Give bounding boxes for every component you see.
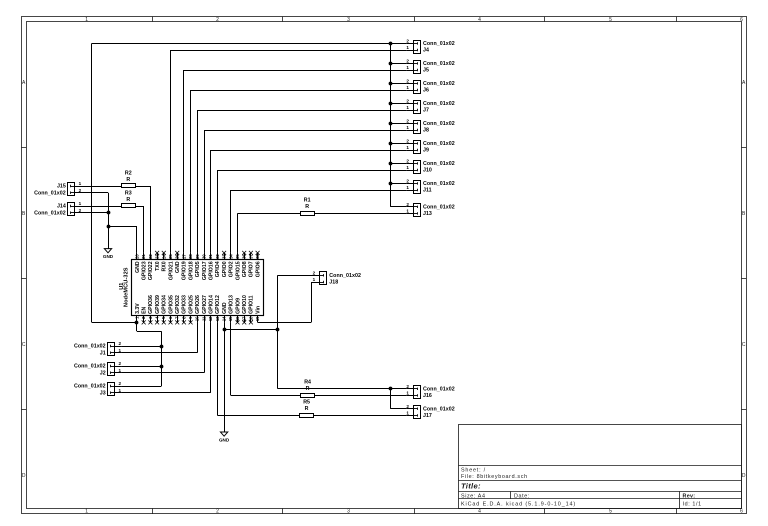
wire J10/GPIO4 horizontal <box>217 170 406 172</box>
junction 3.3V at J1 pin 2 <box>160 345 164 349</box>
svg-text:1: 1 <box>406 45 409 50</box>
wire 3.3V rail top <box>92 43 391 45</box>
J18 body <box>320 272 327 285</box>
svg-text:Vin: Vin <box>255 306 261 314</box>
svg-text:Conn_01x02: Conn_01x02 <box>423 181 455 187</box>
J15 pin 1 stub <box>75 186 82 188</box>
svg-text:Conn_01x02: Conn_01x02 <box>423 121 455 127</box>
svg-text:30: 30 <box>202 254 207 259</box>
wire J7/GPIO5 vertical <box>197 110 199 253</box>
U1 pin 7 (GPIO32) bottom <box>175 295 181 324</box>
junction J14 pin 2 / GND <box>107 211 111 215</box>
svg-text:GND: GND <box>175 261 181 273</box>
J6 pin 1 stub <box>407 90 414 92</box>
U1 pin 36 (GPIO8) top <box>242 251 248 277</box>
J4 body <box>414 41 421 54</box>
connector J7 (Conn_01x02) <box>413 101 420 114</box>
J2 body <box>108 363 115 376</box>
connector J10 (Conn_01x02) <box>413 161 420 174</box>
U1 pin 37 (GPIO7) top <box>248 251 254 277</box>
svg-text:Conn_01x02: Conn_01x02 <box>34 210 66 216</box>
connector J1 (Conn_01x02) <box>108 343 115 356</box>
J11 pin 1 stub <box>407 190 414 192</box>
svg-text:Conn_01x02: Conn_01x02 <box>34 190 66 196</box>
svg-text:EN: EN <box>141 306 147 313</box>
junction GND at J16 pin 2 <box>389 387 393 391</box>
svg-text:GPIO19: GPIO19 <box>182 261 188 280</box>
J18 pin 1 stub <box>313 282 320 284</box>
svg-text:11: 11 <box>201 316 206 321</box>
svg-text:5: 5 <box>609 509 612 515</box>
svg-text:34: 34 <box>228 254 233 259</box>
svg-text:J3: J3 <box>100 390 106 396</box>
wire J8/GPIO17 horizontal <box>204 130 407 132</box>
J10 body <box>414 161 421 174</box>
svg-text:22: 22 <box>148 254 153 259</box>
wire J7/GPIO5 horizontal <box>197 110 406 112</box>
svg-text:35: 35 <box>235 254 240 259</box>
wire to J18 pin 1 <box>311 282 313 284</box>
svg-text:GPIO16: GPIO16 <box>208 261 214 280</box>
svg-text:1: 1 <box>406 165 409 170</box>
U1 pin 14 (GND) bottom <box>222 302 228 322</box>
U1 pin 5 (GPIO34) bottom <box>161 295 167 324</box>
U1 pin 17 (GPIO10) bottom <box>242 295 248 324</box>
svg-text:1: 1 <box>406 185 409 190</box>
svg-text:2: 2 <box>406 179 409 184</box>
J14 pin 1 stub <box>75 206 82 208</box>
J5 body <box>414 61 421 74</box>
junction GND at U1 pin 14 <box>223 328 227 332</box>
svg-text:GPIO22: GPIO22 <box>148 261 154 280</box>
connector J6 (Conn_01x02) <box>413 81 420 94</box>
svg-text:Conn_01x02: Conn_01x02 <box>423 41 455 47</box>
svg-text:2: 2 <box>406 404 409 409</box>
svg-text:Conn_01x02: Conn_01x02 <box>423 61 455 67</box>
wire J3 pin 2 to 3.3V <box>121 386 161 388</box>
svg-text:6: 6 <box>740 509 743 515</box>
wire 3.3V bus vertical right <box>390 43 392 206</box>
connector J2 (Conn_01x02) <box>108 363 115 376</box>
wire J15 pin 1 to R2 <box>82 186 122 188</box>
wire J9/GPIO16 vertical <box>210 150 212 253</box>
wire GND horizontal <box>224 329 278 331</box>
svg-text:29: 29 <box>195 254 200 259</box>
J16 pin 2 stub <box>407 388 414 390</box>
wire bus to J9 pin 2 <box>390 143 406 145</box>
svg-text:GPIO26: GPIO26 <box>195 295 201 314</box>
svg-text:R: R <box>126 197 130 203</box>
wire J9/GPIO16 horizontal <box>211 150 407 152</box>
U1 pin 18 (GPIO11) bottom <box>248 295 254 324</box>
svg-text:GPIO33: GPIO33 <box>182 295 188 314</box>
connector J5 (Conn_01x02) <box>413 61 420 74</box>
svg-text:J13: J13 <box>423 211 432 217</box>
wire Vin horizontal <box>258 322 312 324</box>
svg-text:1: 1 <box>119 348 122 353</box>
svg-text:GPIO7: GPIO7 <box>249 261 255 277</box>
U1 pin 16 (GPIO9) bottom <box>235 298 241 324</box>
svg-text:TX0: TX0 <box>155 261 161 271</box>
U1 pin 38 (GPIO6) top <box>255 251 261 277</box>
svg-text:R2: R2 <box>125 170 132 176</box>
svg-text:27: 27 <box>181 254 186 259</box>
svg-text:25: 25 <box>168 254 173 259</box>
U1 pin 27 (GPIO19) top <box>181 253 187 280</box>
junction 3.3V at J2 pin 2 <box>160 365 164 369</box>
J10 pin 2 stub <box>407 163 414 165</box>
svg-text:2: 2 <box>406 384 409 389</box>
wire R3 to GPIO23 corner <box>136 206 144 208</box>
wire J2 pin 2 to 3.3V <box>121 366 161 368</box>
U1 pin 2 (EN) bottom <box>141 306 147 324</box>
svg-text:1: 1 <box>406 105 409 110</box>
junction bus at J11 pin 2 <box>389 182 393 186</box>
wire bus to J5 pin 2 <box>390 63 406 65</box>
svg-text:2: 2 <box>406 159 409 164</box>
connector J16 (Conn_01x02) <box>413 386 420 399</box>
svg-text:31: 31 <box>208 254 213 259</box>
svg-text:14: 14 <box>222 316 227 321</box>
svg-text:20: 20 <box>135 254 140 259</box>
svg-text:D: D <box>22 473 26 479</box>
wire J14 pin 2 <box>82 212 109 214</box>
J14 body <box>68 203 75 216</box>
J16 body <box>414 386 421 399</box>
svg-text:GPIO21: GPIO21 <box>168 261 174 280</box>
wire bus to J4 pin 2 <box>390 43 406 45</box>
J15 pin 2 stub <box>75 192 82 194</box>
svg-text:Conn_01x02: Conn_01x02 <box>74 384 106 390</box>
junction bus at J4 pin 2 <box>389 42 393 46</box>
J3 pin 1 stub <box>115 392 122 394</box>
svg-text:28: 28 <box>188 254 193 259</box>
junction GND branch to U1 pin 20 <box>107 225 111 229</box>
svg-text:1: 1 <box>406 209 409 214</box>
svg-text:2: 2 <box>79 208 82 213</box>
svg-text:2: 2 <box>406 119 409 124</box>
svg-text:GPIO8: GPIO8 <box>242 261 248 277</box>
svg-text:J5: J5 <box>423 68 429 74</box>
svg-text:2: 2 <box>406 139 409 144</box>
wire GPIO26 to J1 pin 1 <box>121 352 197 354</box>
connector J15 (Conn_01x02) <box>68 183 75 196</box>
J3 body <box>108 383 115 396</box>
svg-text:1: 1 <box>406 125 409 130</box>
svg-text:D: D <box>742 473 746 479</box>
wire J10/GPIO4 vertical <box>217 170 219 253</box>
wire J4/GPIO21 vertical <box>170 50 172 253</box>
wire J14 pin 1 to R3 <box>82 206 122 208</box>
wire GND to U1 pin 20 <box>108 226 137 228</box>
U1 pin 12 (GPIO14) bottom <box>208 295 214 322</box>
wire J1 pin 2 to 3.3V <box>121 346 161 348</box>
U1 pin 22 (GPIO22) top <box>148 253 154 280</box>
wire bus to J11 pin 2 <box>390 183 406 185</box>
wire bus to J13 pin 2 <box>390 206 406 208</box>
svg-text:Conn_01x02: Conn_01x02 <box>74 344 106 350</box>
resistor R4 <box>301 380 315 398</box>
svg-text:19: 19 <box>255 316 260 321</box>
U1 pin 34 (GPIO2) top <box>228 253 234 277</box>
U1 pin 11 (GPIO27) bottom <box>201 295 207 322</box>
wire GPIO12 vertical <box>217 322 219 415</box>
svg-text:2: 2 <box>119 341 122 346</box>
connector J13 (Conn_01x02) <box>413 204 420 217</box>
wire J6/GPIO18 vertical <box>190 90 192 253</box>
U1 pin 33 (GPIO0) top <box>222 251 228 277</box>
wire 3.3V to U1 pin 1 <box>92 322 137 324</box>
svg-text:R5: R5 <box>303 400 310 406</box>
svg-text:GPIO10: GPIO10 <box>242 295 248 314</box>
J9 body <box>414 141 421 154</box>
wire J18 pin 2 <box>278 275 313 277</box>
svg-text:Title:: Title: <box>461 482 481 491</box>
svg-text:Conn_01x02: Conn_01x02 <box>423 141 455 147</box>
svg-text:12: 12 <box>208 316 213 321</box>
wire to J16 pin 2 <box>390 388 406 390</box>
svg-text:R: R <box>126 177 130 183</box>
wire to GPIO22 <box>150 186 152 253</box>
svg-text:GND: GND <box>219 438 230 443</box>
U1 pin 1 (3.3V) bottom <box>134 303 140 323</box>
U1 pin 15 (GPIO13) bottom <box>228 295 234 322</box>
svg-text:Conn_01x02: Conn_01x02 <box>74 364 106 370</box>
svg-text:15: 15 <box>228 316 233 321</box>
svg-text:1: 1 <box>79 181 82 186</box>
ground <box>103 249 114 260</box>
svg-text:J4: J4 <box>423 48 429 54</box>
svg-text:3: 3 <box>347 509 350 515</box>
wire GPIO12 to R5 <box>217 415 299 417</box>
svg-text:2: 2 <box>216 17 219 23</box>
IC U1 NodeMCU-32S body <box>132 260 264 316</box>
U1 pin 30 (GPIO17) top <box>202 253 208 280</box>
wire R4 to J16 pin 1 <box>315 395 407 397</box>
svg-text:Sheet: /: Sheet: / <box>461 468 486 474</box>
junction bus at J7 pin 2 <box>389 102 393 106</box>
wire GPIO14 vertical <box>210 322 212 392</box>
svg-text:GPIO18: GPIO18 <box>188 261 194 280</box>
svg-text:2: 2 <box>119 361 122 366</box>
junction bus at J10 pin 2 <box>389 162 393 166</box>
svg-text:J15: J15 <box>57 184 66 190</box>
svg-text:1: 1 <box>313 277 316 282</box>
svg-text:Conn_01x02: Conn_01x02 <box>423 81 455 87</box>
svg-text:GPIO15: GPIO15 <box>235 261 241 280</box>
svg-text:Conn_01x02: Conn_01x02 <box>329 273 361 279</box>
svg-text:1: 1 <box>85 509 88 515</box>
U1 pin 35 (GPIO15) top <box>235 253 241 280</box>
svg-text:GPIO6: GPIO6 <box>255 261 261 277</box>
svg-text:GPIO0: GPIO0 <box>222 261 228 277</box>
svg-text:R: R <box>305 204 309 210</box>
svg-text:2: 2 <box>406 39 409 44</box>
svg-text:1: 1 <box>406 65 409 70</box>
wire bus to J10 pin 2 <box>390 163 406 165</box>
svg-text:GPIO27: GPIO27 <box>202 295 208 314</box>
svg-text:2: 2 <box>313 271 316 276</box>
J9 pin 2 stub <box>407 143 414 145</box>
resistor R5 <box>300 400 314 418</box>
J9 pin 1 stub <box>407 150 414 152</box>
wire GPIO27 vertical <box>204 322 206 372</box>
junction 3.3V at U1 pin 1 <box>135 321 139 325</box>
svg-text:J17: J17 <box>423 413 432 419</box>
wire J5/GPIO19 horizontal <box>184 70 407 72</box>
wire J6/GPIO18 horizontal <box>191 90 407 92</box>
svg-text:GND: GND <box>135 261 141 273</box>
J3 pin 2 stub <box>115 386 122 388</box>
J4 pin 1 stub <box>407 50 414 52</box>
J17 body <box>414 406 421 419</box>
svg-text:GPIO34: GPIO34 <box>162 295 168 314</box>
wire 3.3V down <box>136 322 138 331</box>
wire J8/GPIO17 vertical <box>204 130 206 253</box>
svg-text:1: 1 <box>79 201 82 206</box>
svg-text:21: 21 <box>141 254 146 259</box>
U1 pin 26 (GND) top <box>175 251 181 273</box>
U1 pin 19 (Vin) bottom <box>255 306 261 322</box>
svg-text:GPIO23: GPIO23 <box>141 261 147 280</box>
connector J4 (Conn_01x02) <box>413 41 420 54</box>
U1 pin 6 (GPIO35) bottom <box>168 295 174 324</box>
J5 pin 2 stub <box>407 63 414 65</box>
J15 body <box>68 183 75 196</box>
svg-text:GPIO39: GPIO39 <box>155 295 161 314</box>
wire GPIO13 to R4 <box>231 395 301 397</box>
svg-text:J6: J6 <box>423 88 429 94</box>
svg-text:Conn_01x02: Conn_01x02 <box>423 205 455 211</box>
connector J8 (Conn_01x02) <box>413 121 420 134</box>
wire J4/GPIO21 horizontal <box>171 50 407 52</box>
svg-text:GPIO4: GPIO4 <box>215 261 221 277</box>
svg-text:13: 13 <box>215 316 220 321</box>
svg-text:1: 1 <box>406 145 409 150</box>
J8 pin 1 stub <box>407 130 414 132</box>
svg-text:R4: R4 <box>304 380 311 386</box>
wire bus to J7 pin 2 <box>390 103 406 105</box>
connector J18 (Conn_01x02) <box>320 272 327 285</box>
U1 pin 13 (GPIO12) bottom <box>215 295 221 322</box>
wire GND vertical left <box>108 193 110 249</box>
wire GND to J16 pin 2 <box>278 388 391 390</box>
J6 body <box>414 81 421 94</box>
svg-text:GND: GND <box>222 302 228 314</box>
svg-text:GPIO2: GPIO2 <box>229 261 235 277</box>
svg-text:1: 1 <box>119 368 122 373</box>
svg-text:J7: J7 <box>423 108 429 114</box>
U1 pin 3 (GPIO36) bottom <box>148 295 154 324</box>
J1 pin 2 stub <box>115 346 122 348</box>
svg-text:4: 4 <box>478 17 481 23</box>
connector J17 (Conn_01x02) <box>413 406 420 419</box>
svg-text:Conn_01x02: Conn_01x02 <box>423 406 455 412</box>
wire GPIO13 vertical <box>230 322 232 395</box>
U1 pin 24 (RX0) top <box>161 251 167 272</box>
svg-text:Conn_01x02: Conn_01x02 <box>423 161 455 167</box>
svg-text:J2: J2 <box>100 370 106 376</box>
J7 pin 2 stub <box>407 103 414 105</box>
junction bus at J5 pin 2 <box>389 62 393 66</box>
svg-text:Conn_01x02: Conn_01x02 <box>423 387 455 393</box>
svg-text:GND: GND <box>103 254 114 259</box>
svg-text:Id: 1/1: Id: 1/1 <box>683 501 702 507</box>
J1 pin 1 stub <box>115 352 122 354</box>
svg-text:GPIO11: GPIO11 <box>249 295 255 314</box>
svg-text:R: R <box>305 406 309 412</box>
svg-text:R3: R3 <box>125 190 132 196</box>
svg-text:3.3V: 3.3V <box>135 303 141 314</box>
U1 pin 28 (GPIO18) top <box>188 253 194 280</box>
J2 pin 2 stub <box>115 366 122 368</box>
svg-text:Conn_01x02: Conn_01x02 <box>423 101 455 107</box>
J13 pin 1 stub <box>407 213 414 215</box>
svg-text:J8: J8 <box>423 128 429 134</box>
svg-text:2: 2 <box>119 381 122 386</box>
svg-text:GPIO14: GPIO14 <box>208 295 214 314</box>
svg-text:C: C <box>22 342 26 348</box>
wire bus to J6 pin 2 <box>390 83 406 85</box>
J13 pin 2 stub <box>407 206 414 208</box>
svg-text:1: 1 <box>406 411 409 416</box>
wire 3.3V jog <box>137 331 161 333</box>
resistor R1 <box>301 198 315 216</box>
wire GPIO15 vertical <box>237 213 239 253</box>
J17 pin 1 stub <box>407 415 414 417</box>
J18 pin 2 stub <box>313 275 320 277</box>
J16 pin 1 stub <box>407 395 414 397</box>
J8 body <box>414 121 421 134</box>
svg-text:4: 4 <box>478 509 481 515</box>
svg-text:2: 2 <box>406 99 409 104</box>
svg-text:J1: J1 <box>100 350 106 356</box>
wire GND vertical bottom <box>224 322 226 432</box>
J13 body <box>414 204 421 217</box>
junction bus at J8 pin 2 <box>389 122 393 126</box>
wire Vin vertical <box>311 282 313 322</box>
junction bus at J9 pin 2 <box>389 142 393 146</box>
J11 body <box>414 181 421 194</box>
svg-text:2: 2 <box>216 509 219 515</box>
J4 pin 2 stub <box>407 43 414 45</box>
U1 pin 21 (GPIO23) top <box>141 253 147 280</box>
connector J3 (Conn_01x02) <box>108 383 115 396</box>
svg-text:KiCad E.D.A. kicad (5.1.9-0-1: KiCad E.D.A. kicad (5.1.9-0-10_14) <box>461 501 576 507</box>
svg-text:J18: J18 <box>329 280 338 286</box>
svg-text:GPIO32: GPIO32 <box>175 295 181 314</box>
svg-text:J11: J11 <box>423 188 432 194</box>
J1 body <box>108 343 115 356</box>
svg-text:R: R <box>306 386 310 392</box>
svg-text:2: 2 <box>406 202 409 207</box>
svg-text:GPIO12: GPIO12 <box>215 295 221 314</box>
svg-text:32: 32 <box>215 254 220 259</box>
wire GPIO27 to J2 pin 1 <box>121 372 204 374</box>
svg-text:GPIO9: GPIO9 <box>235 298 241 314</box>
svg-text:J10: J10 <box>423 168 432 174</box>
J8 pin 2 stub <box>407 123 414 125</box>
J11 pin 2 stub <box>407 183 414 185</box>
svg-text:1: 1 <box>406 391 409 396</box>
svg-text:3: 3 <box>347 17 350 23</box>
wire J11/GPIO2 horizontal <box>231 190 407 192</box>
svg-text:GPIO13: GPIO13 <box>229 295 235 314</box>
J10 pin 1 stub <box>407 170 414 172</box>
svg-text:1: 1 <box>406 85 409 90</box>
wire R2 to GPIO22 corner <box>136 186 151 188</box>
U1 pin 31 (GPIO16) top <box>208 253 214 280</box>
